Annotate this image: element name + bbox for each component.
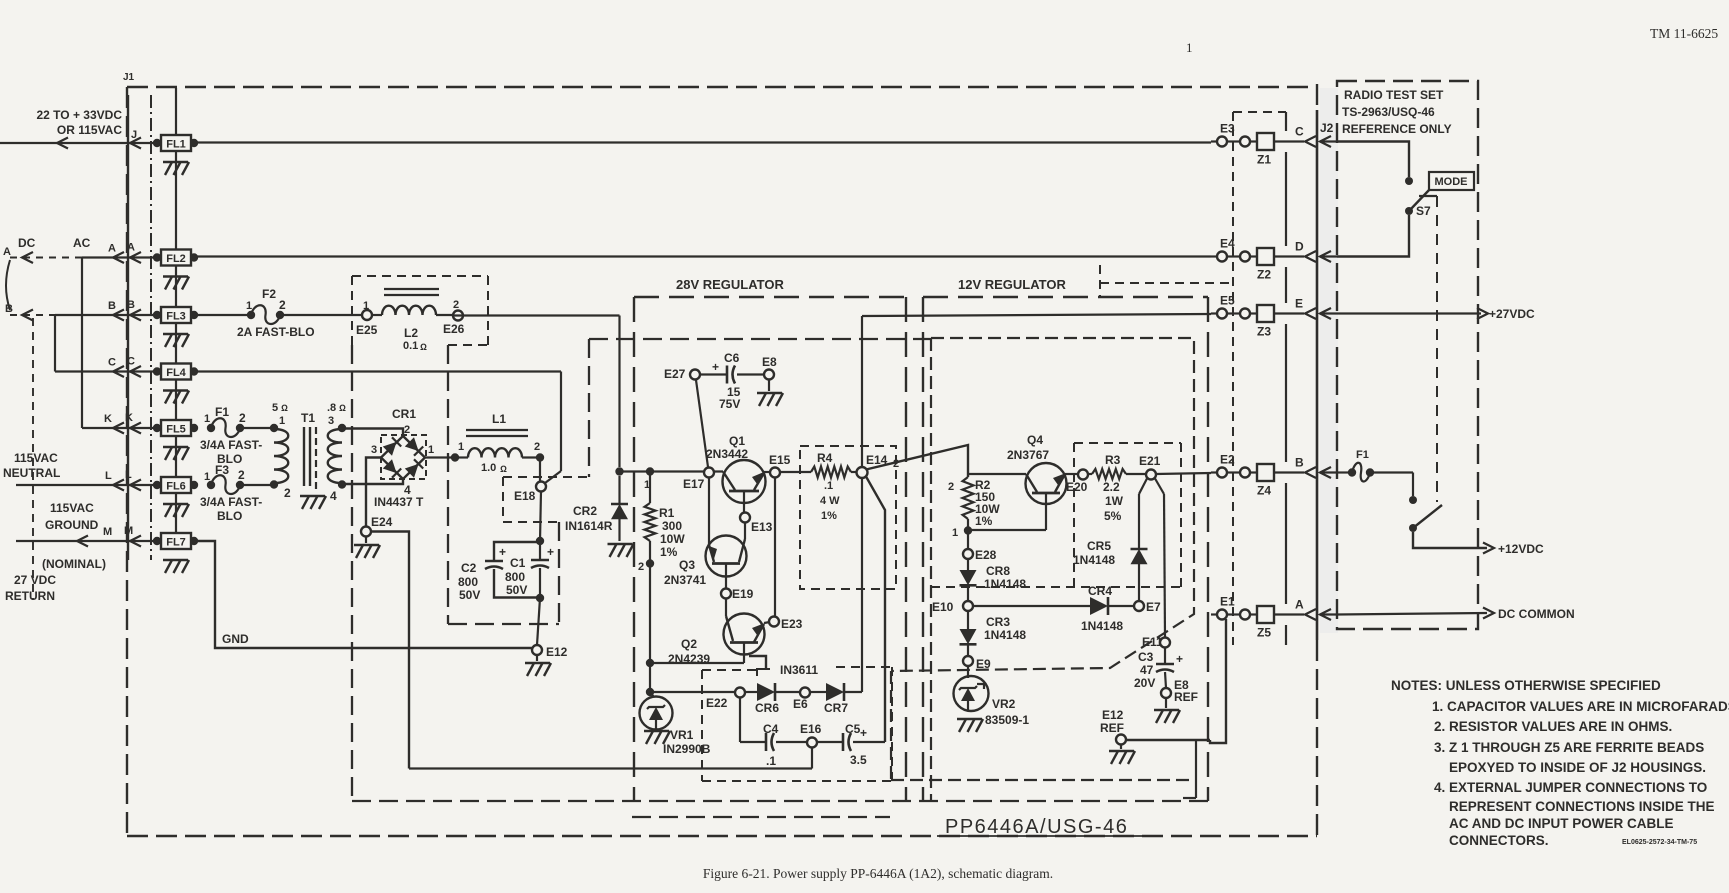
- svg-text:2: 2: [279, 298, 286, 312]
- wire rail FL1 to E3: [194, 141, 1211, 143]
- svg-text:+: +: [860, 726, 867, 740]
- dashed boundary x589: [588, 339, 590, 477]
- svg-text:PP6446A/USG-46: PP6446A/USG-46: [945, 816, 1128, 838]
- svg-text:E21: E21: [1139, 454, 1161, 468]
- svg-text:R3: R3: [1105, 453, 1121, 467]
- transformer T1 primary: [270, 424, 278, 432]
- svg-text:K: K: [125, 412, 133, 424]
- fuse F1 test set: [1337, 471, 1352, 473]
- svg-text:E12: E12: [546, 645, 568, 659]
- svg-text:CR5: CR5: [1087, 539, 1111, 553]
- FL interconnect vertical wire: [175, 88, 177, 534]
- svg-text:Z4: Z4: [1257, 484, 1271, 498]
- dashed boundary y339: [589, 338, 931, 340]
- filter FL7: [153, 537, 161, 545]
- dashed boundary bottom left: [352, 800, 1208, 802]
- ferrite bead Z5: [1257, 606, 1274, 623]
- svg-text:CR4: CR4: [1088, 584, 1112, 598]
- node E2: [1211, 471, 1219, 473]
- wire DC dashed row A: [10, 257, 82, 259]
- filter FL2: [153, 253, 161, 261]
- terminal E9: [963, 656, 973, 666]
- svg-text:DC COMMON: DC COMMON: [1498, 607, 1575, 621]
- svg-text:IN3611: IN3611: [780, 663, 818, 677]
- terminal E11: [1160, 638, 1170, 648]
- svg-text:B: B: [1295, 456, 1304, 470]
- terminal E15: [770, 468, 780, 478]
- svg-text:Ω: Ω: [500, 464, 507, 474]
- node E4: [1211, 255, 1219, 257]
- ferrite bead Z1: [1257, 133, 1274, 150]
- svg-text:Q4: Q4: [1027, 433, 1043, 447]
- filter FL6: [153, 481, 161, 489]
- svg-text:VR2: VR2: [992, 697, 1016, 711]
- diode CR4: [973, 605, 1090, 607]
- terminal E14: [857, 467, 868, 478]
- ferrite bead Z2: [1257, 248, 1274, 265]
- svg-text:2: 2: [239, 411, 246, 425]
- svg-text:L2: L2: [404, 326, 418, 340]
- svg-text:3.5: 3.5: [850, 753, 867, 767]
- svg-text:C6: C6: [724, 351, 740, 365]
- svg-text:CR3: CR3: [986, 615, 1010, 629]
- svg-text:2N3767: 2N3767: [1007, 448, 1049, 462]
- terminal E26: [453, 311, 463, 321]
- svg-text:OR 115VAC: OR 115VAC: [57, 123, 122, 137]
- svg-text:FL2: FL2: [166, 253, 186, 265]
- ground at FL4: [163, 389, 188, 391]
- 12V inner dashed boundary: [891, 338, 1194, 671]
- svg-text:E16: E16: [800, 722, 822, 736]
- svg-text:10W: 10W: [660, 532, 685, 546]
- svg-text:1: 1: [204, 413, 210, 425]
- svg-text:CR6: CR6: [755, 701, 779, 715]
- GND wire from FL7: [194, 541, 532, 648]
- svg-text:Ω: Ω: [339, 403, 346, 413]
- svg-text:L: L: [125, 469, 132, 481]
- wire VR1 node to E22: [650, 691, 735, 693]
- svg-text:E26: E26: [443, 322, 465, 336]
- terminal E21: [1146, 470, 1156, 480]
- svg-text:1N4148: 1N4148: [1073, 553, 1115, 567]
- svg-text:E12: E12: [1102, 708, 1124, 722]
- IN3611 leader: [749, 656, 766, 668]
- svg-text:E19: E19: [732, 587, 754, 601]
- svg-text:1: 1: [204, 471, 210, 483]
- ground at FL2: [163, 275, 188, 277]
- svg-text:E9: E9: [976, 657, 991, 671]
- svg-text:28V REGULATOR: 28V REGULATOR: [676, 277, 784, 292]
- filter FL4: [153, 367, 161, 375]
- wire row L: [16, 484, 157, 486]
- svg-text:RADIO TEST SET: RADIO TEST SET: [1344, 88, 1444, 102]
- svg-text:FL3: FL3: [166, 311, 186, 323]
- svg-text:R4: R4: [817, 451, 833, 465]
- svg-text:GROUND: GROUND: [45, 518, 99, 532]
- svg-text:Z3: Z3: [1257, 325, 1271, 339]
- svg-text:3: 3: [328, 415, 334, 427]
- svg-text:115VAC: 115VAC: [14, 451, 58, 465]
- ground at E12 REF: [1120, 745, 1122, 750]
- svg-text:3. Z 1 THROUGH Z5 ARE FER: 3. Z 1 THROUGH Z5 ARE FERRITE BEADS: [1434, 740, 1704, 755]
- svg-text:75V: 75V: [719, 397, 740, 411]
- node E1: [1211, 613, 1219, 615]
- svg-text:BLO: BLO: [217, 509, 242, 523]
- svg-text:E7: E7: [1146, 600, 1161, 614]
- svg-text:E3: E3: [1220, 122, 1235, 136]
- svg-text:2N3741: 2N3741: [664, 573, 706, 587]
- svg-text:E2: E2: [1220, 453, 1235, 467]
- svg-text:C4: C4: [763, 722, 779, 736]
- svg-text:300: 300: [662, 519, 682, 533]
- svg-text:E17: E17: [683, 477, 705, 491]
- svg-text:M: M: [103, 526, 112, 538]
- svg-text:115VAC: 115VAC: [50, 501, 94, 515]
- svg-text:1: 1: [458, 441, 464, 453]
- arrow into pin B: [1320, 467, 1331, 478]
- pin K arrow: [130, 423, 141, 434]
- terminal E22: [735, 688, 745, 698]
- filter FL5: [153, 424, 161, 432]
- svg-text:A: A: [108, 243, 116, 255]
- terminal E18: [539, 458, 541, 483]
- wire E27 to E17: [696, 380, 708, 467]
- svg-text:B: B: [127, 299, 135, 311]
- dashed line x33: [32, 318, 34, 600]
- wire E17 to Q3: [708, 478, 710, 546]
- svg-text:5: 5: [272, 402, 278, 414]
- wire row C stub: [55, 370, 157, 372]
- E4 jumper dashed: [1099, 265, 1101, 297]
- svg-text:(NOMINAL): (NOMINAL): [42, 557, 106, 571]
- svg-text:.1: .1: [824, 480, 833, 492]
- wire row B to fuse F2: [194, 314, 251, 316]
- fuse F2: [247, 311, 255, 319]
- svg-text:C2: C2: [461, 561, 477, 575]
- svg-text:AC: AC: [73, 236, 91, 250]
- wire bridge to E24: [366, 458, 381, 528]
- wire vertical B-C: [54, 315, 56, 372]
- svg-text:Figure 6-21. Power supply PP: Figure 6-21. Power supply PP-6446A (1A2)…: [703, 866, 1053, 881]
- diode CR2: [618, 476, 620, 504]
- svg-text:2: 2: [638, 561, 644, 573]
- wire Q2 base row: [650, 662, 744, 664]
- svg-text:800: 800: [458, 575, 478, 589]
- wire E12REF to E1: [1126, 739, 1210, 741]
- svg-text:1N4148: 1N4148: [1081, 619, 1123, 633]
- svg-text:E24: E24: [371, 515, 393, 529]
- node E5: [1211, 312, 1219, 314]
- svg-text:C: C: [1295, 125, 1304, 139]
- dashed boundary x559: [558, 522, 560, 624]
- dashed boundary x448: [447, 345, 449, 624]
- svg-text:2: 2: [238, 468, 245, 482]
- svg-text:CR1: CR1: [392, 407, 416, 421]
- svg-text:1.0: 1.0: [481, 462, 496, 474]
- E11 branch: [1155, 479, 1164, 495]
- ground at CR2: [608, 543, 633, 545]
- svg-text:E1: E1: [1220, 595, 1235, 609]
- svg-text:3/4A FAST-: 3/4A FAST-: [200, 438, 262, 452]
- svg-text:F1: F1: [1356, 449, 1369, 461]
- wire row A to FL2: [82, 256, 157, 258]
- diode CR7: [810, 691, 826, 693]
- svg-text:Z5: Z5: [1257, 626, 1271, 640]
- resistor R1: [646, 467, 654, 475]
- pin A J2: [1274, 613, 1304, 615]
- svg-text:2A FAST-BLO: 2A FAST-BLO: [237, 325, 315, 339]
- svg-text:E5: E5: [1220, 294, 1235, 308]
- wire F1 to T1: [240, 427, 274, 429]
- inductor L2: [372, 314, 382, 316]
- arrow into pin D: [1320, 251, 1331, 262]
- ground at T1: [300, 495, 325, 497]
- svg-text:IN2990B: IN2990B: [663, 742, 711, 756]
- terminal E16: [807, 738, 817, 748]
- svg-text:EPOXYED TO INSIDE OF J2 H: EPOXYED TO INSIDE OF J2 HOUSINGS.: [1449, 760, 1706, 775]
- svg-text:FL1: FL1: [166, 139, 186, 151]
- 28V regulator dashed box: [634, 296, 906, 298]
- svg-text:1%: 1%: [660, 545, 678, 559]
- svg-text:1%: 1%: [821, 510, 837, 522]
- svg-text:+27VDC: +27VDC: [1489, 307, 1535, 321]
- svg-text:50V: 50V: [506, 583, 527, 597]
- svg-text:Ω: Ω: [420, 342, 427, 352]
- terminal E20: [1078, 470, 1088, 480]
- ground at VR2: [957, 718, 982, 720]
- pin E J2: [1274, 312, 1304, 314]
- capacitor C1: [539, 541, 541, 559]
- arrow into pin E: [1320, 308, 1331, 319]
- wire +27VDC: [1337, 312, 1481, 314]
- svg-text:F3: F3: [215, 463, 229, 477]
- terminal E23: [769, 617, 779, 627]
- svg-text:E: E: [1295, 297, 1303, 311]
- svg-text:AC AND DC INPUT POWER CAB: AC AND DC INPUT POWER CABLE: [1449, 816, 1674, 831]
- fuse F1: [207, 424, 215, 432]
- wire C row to E18: [194, 370, 561, 372]
- capacitor C3: [1164, 648, 1166, 664]
- wire Q4 base to R2: [968, 529, 1046, 531]
- R4 dashed box: [800, 446, 896, 589]
- terminal E7: [1134, 601, 1144, 611]
- svg-text:Q3: Q3: [679, 558, 695, 572]
- svg-text:1: 1: [246, 300, 252, 312]
- arrow into pin A: [1320, 609, 1331, 620]
- svg-text:E4: E4: [1220, 237, 1235, 251]
- svg-text:E6: E6: [793, 697, 808, 711]
- wire E5 line: [862, 314, 1211, 316]
- wire E14 diag to C5: [866, 477, 885, 743]
- svg-text:FL4: FL4: [166, 367, 186, 379]
- svg-text:1: 1: [428, 444, 434, 456]
- svg-text:T1: T1: [301, 411, 315, 425]
- svg-text:E18: E18: [514, 489, 536, 503]
- svg-text:C3: C3: [1138, 650, 1154, 664]
- ground at E8: [768, 380, 770, 392]
- wire row B to FL3: [55, 314, 157, 316]
- svg-text:1: 1: [279, 415, 285, 427]
- svg-text:F1: F1: [215, 405, 229, 419]
- 12V regulator dashed box: [923, 296, 1208, 298]
- terminal E24: [361, 527, 371, 537]
- svg-text:A: A: [1295, 598, 1304, 612]
- wire E14 down to CR7: [861, 478, 863, 692]
- wire T1-3 to bridge: [342, 429, 403, 438]
- svg-text:CR7: CR7: [824, 701, 848, 715]
- terminal E6: [800, 688, 810, 698]
- svg-text:EL0625-2572-34-TM-75: EL0625-2572-34-TM-75: [1622, 839, 1697, 846]
- transformer T1 secondary: [338, 424, 346, 432]
- svg-text:12V REGULATOR: 12V REGULATOR: [958, 277, 1066, 292]
- zener VR2: [967, 666, 969, 678]
- svg-text:800: 800: [505, 570, 525, 584]
- ground at E12: [536, 655, 538, 661]
- diode CR3: [967, 611, 969, 629]
- wire E26 to corner: [453, 314, 620, 316]
- dashed boundary x352: [351, 345, 353, 801]
- svg-text:TM 11-6625: TM 11-6625: [1650, 26, 1718, 41]
- filter FL3: [153, 311, 161, 319]
- wire AC vertical A-K: [81, 258, 83, 429]
- svg-text:1%: 1%: [975, 514, 993, 528]
- svg-text:FL7: FL7: [166, 537, 186, 549]
- pin J arrow: [130, 138, 141, 149]
- wire corner down to CR2 node: [618, 316, 620, 468]
- capacitor C2: [494, 542, 540, 560]
- terminal E25: [362, 310, 372, 320]
- svg-text:1: 1: [952, 527, 958, 539]
- fuse F3: [207, 481, 215, 489]
- terminal E28: [967, 531, 969, 550]
- svg-text:NOTES: UNLESS OTHERWISE SPECIF: NOTES: UNLESS OTHERWISE SPECIFIED: [1391, 678, 1661, 693]
- svg-text:GND: GND: [222, 632, 249, 646]
- wire E16 to gnd rail: [811, 748, 813, 769]
- svg-text:Q2: Q2: [681, 637, 697, 651]
- svg-text:2. RESISTOR VALUES ARE IN: 2. RESISTOR VALUES ARE IN OHMS.: [1434, 719, 1672, 734]
- wire E24 to corner: [371, 532, 409, 769]
- svg-text:E11: E11: [1142, 635, 1163, 649]
- svg-text:1. CAPACITOR VALUES ARE IN: 1. CAPACITOR VALUES ARE IN MICROFARADS.: [1432, 699, 1729, 714]
- svg-text:1: 1: [363, 300, 369, 312]
- svg-text:TS-2963/USQ-46: TS-2963/USQ-46: [1342, 105, 1435, 119]
- E22 dashed box: [702, 669, 757, 671]
- svg-text:E25: E25: [356, 323, 378, 337]
- ground at FL6: [163, 503, 188, 505]
- wire S7 to D row: [1337, 215, 1409, 257]
- svg-text:Ω: Ω: [281, 403, 288, 413]
- svg-text:R1: R1: [659, 506, 675, 520]
- svg-text:F2: F2: [262, 287, 276, 301]
- wire T1-4 to bridge: [342, 479, 403, 484]
- terminal E17: [704, 468, 714, 478]
- boundary stub at E12REF wire: [1195, 741, 1197, 798]
- transformer T1 core: [303, 427, 305, 486]
- wire F3 to T1: [240, 484, 274, 486]
- svg-text:47: 47: [1140, 663, 1154, 677]
- wire input J row: [0, 142, 157, 144]
- svg-text:FL5: FL5: [166, 424, 186, 436]
- wire rail FL2 to E4: [194, 255, 1211, 257]
- capacitor C6: [690, 370, 700, 380]
- wire F2 to E25: [280, 314, 362, 316]
- wire R1 bottom down: [649, 564, 651, 693]
- svg-text:REFERENCE ONLY: REFERENCE ONLY: [1342, 122, 1452, 136]
- capacitor C5: [817, 741, 843, 743]
- J2 connector vertical line: [1316, 110, 1319, 640]
- ground at FL3: [163, 333, 188, 335]
- terminal E8 REF: [1161, 688, 1171, 698]
- wire row K from AC: [82, 427, 157, 429]
- svg-text:4: 4: [330, 489, 337, 503]
- wire to E12: [537, 598, 540, 645]
- J1 inner dash-dot line: [150, 95, 152, 560]
- svg-text:3: 3: [371, 444, 377, 456]
- pin A arrow: [130, 252, 141, 263]
- R3 dashed box: [1074, 442, 1181, 444]
- svg-text:Z1: Z1: [1257, 153, 1271, 167]
- svg-text:S7: S7: [1416, 204, 1431, 218]
- svg-text:+: +: [1176, 652, 1183, 666]
- svg-text:IN1614R: IN1614R: [565, 519, 613, 533]
- pin B arrow: [130, 310, 141, 321]
- wire row M: [16, 540, 157, 542]
- svg-text:27 VDC: 27 VDC: [14, 573, 56, 587]
- svg-text:IN4437 T: IN4437 T: [374, 495, 424, 509]
- wire E14 up to E5 line: [861, 316, 863, 467]
- svg-text:J2: J2: [1320, 121, 1334, 135]
- pin L arrow: [130, 480, 141, 491]
- arrow into pin C: [1320, 136, 1331, 147]
- ground at E8 REF: [1165, 698, 1167, 708]
- svg-text:RETURN: RETURN: [5, 589, 55, 603]
- svg-text:1W: 1W: [1105, 494, 1124, 508]
- rectifier CR1 bridge: [381, 436, 425, 479]
- wire E21 to E2: [1156, 473, 1211, 474]
- L2 dashed box: [352, 275, 488, 277]
- svg-text:CR8: CR8: [986, 564, 1010, 578]
- svg-text:M: M: [124, 525, 133, 537]
- S7 linkage dashed: [1419, 195, 1437, 197]
- svg-text:20V: 20V: [1134, 676, 1155, 690]
- svg-text:E13: E13: [751, 520, 773, 534]
- svg-text:+12VDC: +12VDC: [1498, 542, 1544, 556]
- svg-text:B: B: [108, 300, 116, 312]
- wire bridge output: [425, 456, 455, 458]
- node E3: [1211, 140, 1219, 142]
- ground at VR1: [644, 730, 669, 732]
- connector dashed column: [1232, 112, 1234, 645]
- svg-text:Q1: Q1: [729, 434, 745, 448]
- svg-text:REPRESENT CONNECTIONS INSIDE: REPRESENT CONNECTIONS INSIDE THE: [1449, 799, 1715, 814]
- ground at FL1: [163, 161, 188, 163]
- svg-text:K: K: [104, 413, 112, 425]
- svg-text:5%: 5%: [1104, 509, 1122, 523]
- svg-text:E20: E20: [1066, 480, 1088, 494]
- ground at E24: [365, 537, 367, 544]
- svg-text:1: 1: [1186, 40, 1193, 55]
- svg-text:C1: C1: [510, 556, 526, 570]
- svg-text:.1: .1: [766, 754, 776, 768]
- svg-text:E22: E22: [706, 696, 728, 710]
- ferrite bead Z4: [1257, 464, 1274, 481]
- svg-text:2: 2: [893, 458, 899, 470]
- tie A-B arc: [6, 260, 10, 310]
- svg-text:E8: E8: [762, 355, 777, 369]
- pin C arrow: [130, 366, 141, 377]
- wire +12VDC: [1413, 532, 1487, 548]
- pin B J2: [1274, 471, 1304, 473]
